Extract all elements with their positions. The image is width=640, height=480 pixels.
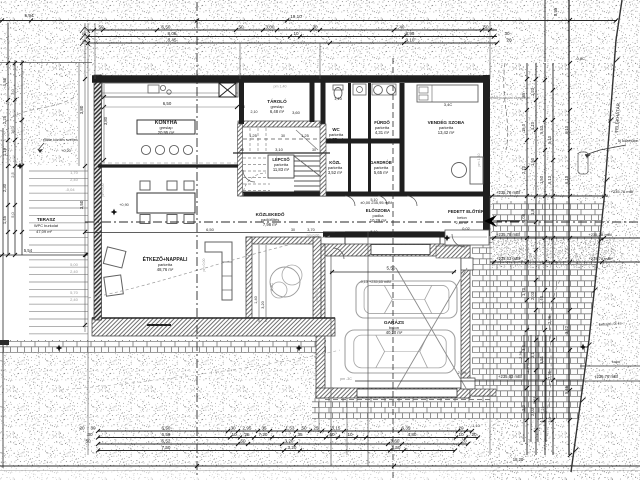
svg-text:25: 25	[313, 426, 319, 431]
svg-text:1,53: 1,53	[286, 426, 295, 431]
svg-text:35: 35	[297, 432, 303, 437]
svg-text:6,13: 6,13	[564, 175, 569, 184]
svg-text:9,10: 9,10	[406, 38, 415, 43]
svg-text:+0,90: +0,90	[119, 203, 129, 207]
svg-text:10: 10	[458, 432, 464, 437]
svg-text:pm 0,00: pm 0,00	[307, 234, 320, 238]
svg-text:+235,78 mBf: +235,78 mBf	[496, 232, 521, 237]
svg-text:20,95 m²: 20,95 m²	[158, 130, 175, 135]
svg-text:5,50: 5,50	[387, 266, 396, 271]
svg-text:+235,63 mBf: +235,63 mBf	[498, 374, 523, 379]
svg-text:2,08: 2,08	[521, 213, 526, 222]
svg-text:47,09 m²: 47,09 m²	[36, 229, 52, 234]
svg-text:50: 50	[85, 439, 91, 444]
svg-text:20: 20	[471, 432, 477, 437]
svg-text:13,42 m²: 13,42 m²	[438, 130, 455, 135]
svg-text:30: 30	[504, 31, 510, 36]
svg-text:2,10: 2,10	[521, 165, 526, 174]
svg-text:3,80: 3,80	[103, 116, 108, 125]
svg-text:1,50: 1,50	[530, 157, 535, 166]
svg-text:7,20: 7,20	[259, 432, 268, 437]
svg-text:1,10: 1,10	[334, 96, 343, 101]
svg-text:1,25: 1,25	[249, 133, 258, 138]
svg-text:térkő burkolat szegéllyel: térkő burkolat szegéllyel	[490, 96, 531, 100]
svg-text:11,83 m²: 11,83 m²	[273, 167, 290, 172]
svg-text:30: 30	[281, 134, 285, 138]
svg-text:3,15: 3,15	[332, 426, 341, 431]
svg-text:3,70: 3,70	[307, 228, 314, 232]
svg-text:5,94: 5,94	[25, 13, 34, 18]
svg-text:+0,20: +0,20	[61, 149, 71, 153]
svg-text:6,35: 6,35	[402, 426, 411, 431]
svg-text:5,45: 5,45	[564, 385, 569, 394]
svg-text:5,70: 5,70	[70, 290, 79, 295]
svg-text:2,95: 2,95	[243, 426, 252, 431]
svg-text:8,45: 8,45	[168, 38, 177, 43]
svg-text:1,70: 1,70	[70, 170, 79, 175]
svg-text:3,60: 3,60	[292, 110, 301, 115]
svg-text:+235,63 mBf: +235,63 mBf	[496, 256, 521, 261]
svg-text:0,02: 0,02	[462, 227, 469, 231]
svg-text:25: 25	[244, 432, 250, 437]
svg-text:5,95: 5,95	[553, 7, 558, 16]
svg-text:8,05: 8,05	[168, 31, 177, 36]
svg-text:-0,8C: -0,8C	[575, 56, 585, 61]
svg-text:1,50: 1,50	[2, 77, 7, 86]
svg-text:3,42: 3,42	[564, 325, 569, 334]
svg-text:5,51: 5,51	[539, 355, 544, 364]
svg-text:2,25: 2,25	[2, 115, 7, 124]
svg-text:FEDETT ELŐTÉR: FEDETT ELŐTÉR	[448, 209, 485, 214]
svg-text:1,20: 1,20	[329, 140, 336, 144]
svg-text:6,13: 6,13	[547, 175, 552, 184]
svg-text:pm 0,00: pm 0,00	[202, 259, 206, 272]
svg-text:+235,78 mBf: +235,78 mBf	[589, 256, 613, 261]
svg-text:5,51: 5,51	[532, 395, 537, 404]
svg-text:50: 50	[240, 439, 246, 444]
svg-text:19,10: 19,10	[290, 14, 302, 19]
svg-text:kapu: kapu	[612, 360, 620, 364]
svg-text:5,00: 5,00	[70, 262, 79, 267]
svg-text:3,80: 3,80	[79, 105, 84, 114]
svg-text:2,5%: 2,5%	[458, 371, 467, 375]
svg-text:új közműbe: új közműbe	[618, 138, 638, 143]
svg-text:2,10: 2,10	[251, 110, 258, 114]
svg-text:30: 30	[230, 426, 236, 431]
svg-text:5,10: 5,10	[371, 198, 378, 202]
svg-text:4,31 m²: 4,31 m²	[375, 130, 390, 135]
svg-text:1,50: 1,50	[539, 175, 544, 184]
svg-text:6,48 m²: 6,48 m²	[270, 109, 285, 114]
svg-text:2,36: 2,36	[547, 315, 552, 324]
svg-text:TÁROLÓ: TÁROLÓ	[267, 97, 287, 104]
svg-text:2,03: 2,03	[530, 291, 535, 300]
svg-text:-0,04: -0,04	[65, 187, 75, 192]
svg-text:3,10: 3,10	[275, 147, 284, 152]
svg-text:pm 0,00: pm 0,00	[101, 184, 105, 197]
svg-text:1,45: 1,45	[2, 215, 7, 224]
svg-text:5,54: 5,54	[24, 248, 33, 253]
svg-text:2,36: 2,36	[518, 350, 523, 359]
svg-text:50: 50	[483, 25, 489, 30]
svg-text:pm 0,00: pm 0,00	[459, 41, 472, 45]
svg-text:4,2C: 4,2C	[270, 283, 274, 291]
svg-text:2,40: 2,40	[70, 177, 79, 182]
svg-text:3,0: 3,0	[10, 88, 15, 94]
svg-text:6,50: 6,50	[206, 227, 215, 232]
svg-text:3,00: 3,00	[266, 25, 275, 30]
svg-text:3,4: 3,4	[521, 344, 526, 350]
svg-text:VENDÉG SZOBA: VENDÉG SZOBA	[428, 118, 465, 125]
svg-text:5,65 m²: 5,65 m²	[374, 170, 389, 175]
svg-text:35: 35	[261, 426, 267, 431]
svg-text:3,20: 3,20	[261, 301, 265, 308]
svg-text:3,60: 3,60	[391, 439, 400, 444]
svg-text:10,29 m²: 10,29 m²	[370, 218, 387, 223]
svg-text:2,5: 2,5	[10, 171, 15, 177]
svg-text:pm 0,00: pm 0,00	[315, 289, 319, 302]
svg-text:7,96 m²: 7,96 m²	[263, 222, 278, 227]
svg-text:30: 30	[90, 426, 96, 431]
svg-text:60: 60	[329, 432, 335, 437]
svg-text:TERASZ: TERASZ	[37, 217, 56, 222]
svg-text:pm -3C: pm -3C	[340, 377, 352, 381]
svg-text:5,10: 5,10	[371, 230, 378, 234]
svg-text:1,10: 1,10	[472, 424, 479, 428]
svg-text:30: 30	[291, 228, 295, 232]
svg-text:beton: beton	[457, 216, 467, 220]
svg-text:+235,76 mBf: +235,76 mBf	[611, 189, 635, 194]
svg-text:6,59: 6,59	[162, 432, 171, 437]
svg-text:20: 20	[461, 439, 467, 444]
svg-text:5,43: 5,43	[539, 125, 544, 134]
svg-text:5,10: 5,10	[547, 135, 552, 144]
svg-text:3,52 m²: 3,52 m²	[328, 170, 343, 175]
svg-text:pm 0,00: pm 0,00	[292, 41, 305, 45]
svg-text:6,50: 6,50	[162, 25, 171, 30]
svg-text:16,0: 16,0	[10, 125, 15, 134]
svg-text:1,40: 1,40	[254, 296, 258, 303]
svg-text:10: 10	[347, 432, 353, 437]
svg-text:2,30: 2,30	[2, 183, 7, 192]
svg-text:7,21: 7,21	[540, 405, 545, 414]
svg-text:20: 20	[506, 38, 512, 43]
svg-text:1,10: 1,10	[2, 147, 7, 156]
svg-text:10: 10	[231, 432, 237, 437]
svg-text:2,9%: 2,9%	[525, 363, 530, 373]
svg-text:30: 30	[240, 148, 244, 152]
svg-text:4,80: 4,80	[408, 432, 417, 437]
svg-text:3,4C: 3,4C	[444, 102, 453, 107]
svg-text:2,2: 2,2	[521, 404, 526, 410]
svg-text:1,25: 1,25	[301, 133, 310, 138]
svg-text:pm 1,40: pm 1,40	[477, 154, 481, 167]
svg-text:50: 50	[98, 25, 104, 30]
svg-text:7,50: 7,50	[162, 445, 171, 450]
svg-text:30: 30	[312, 148, 316, 152]
svg-text:6,50: 6,50	[163, 101, 172, 106]
svg-text:1,8: 1,8	[530, 208, 535, 214]
svg-text:40,20 m²: 40,20 m²	[386, 330, 403, 335]
svg-text:pm 1,40: pm 1,40	[274, 85, 287, 89]
svg-text:3,0: 3,0	[547, 416, 552, 422]
svg-text:2,40: 2,40	[70, 269, 79, 274]
svg-text:WPC burkolat: WPC burkolat	[34, 223, 59, 228]
svg-text:3,50: 3,50	[79, 200, 84, 209]
svg-text:6,52: 6,52	[162, 439, 171, 444]
svg-text:8,95: 8,95	[406, 31, 415, 36]
svg-text:10: 10	[293, 31, 299, 36]
svg-text:50: 50	[238, 25, 244, 30]
svg-text:30: 30	[241, 105, 245, 109]
svg-text:2,80 m²: 2,80 m²	[456, 221, 470, 225]
svg-text:2,40: 2,40	[70, 297, 79, 302]
svg-text:előtte közítés szerint: előtte közítés szerint	[43, 138, 79, 142]
svg-text:48,76 m²: 48,76 m²	[157, 267, 174, 272]
svg-text:4,1: 4,1	[539, 416, 544, 422]
svg-text:7,40: 7,40	[396, 25, 405, 30]
svg-text:20: 20	[79, 426, 85, 431]
svg-text:50: 50	[301, 426, 307, 431]
svg-text:1,50: 1,50	[392, 445, 401, 450]
svg-text:5,0: 5,0	[10, 211, 15, 217]
svg-text:1,40: 1,40	[539, 295, 544, 304]
svg-text:6,50: 6,50	[162, 426, 171, 431]
svg-text:18,20: 18,20	[513, 457, 524, 462]
svg-text:+235,76 mBf: +235,76 mBf	[594, 374, 619, 379]
svg-text:1,70: 1,70	[521, 287, 526, 296]
svg-text:3,20: 3,20	[285, 439, 294, 444]
svg-text:+235,78 mBf: +235,78 mBf	[496, 190, 521, 195]
svg-text:-0,13 +235,65 mBf: -0,13 +235,65 mBf	[359, 280, 391, 284]
svg-text:1,10: 1,10	[530, 121, 535, 130]
svg-text:3,20: 3,20	[288, 445, 297, 450]
svg-text:1,23: 1,23	[530, 87, 535, 96]
svg-text:30: 30	[87, 432, 93, 437]
svg-text:15,0: 15,0	[521, 123, 526, 132]
svg-text:6,10: 6,10	[564, 125, 569, 134]
